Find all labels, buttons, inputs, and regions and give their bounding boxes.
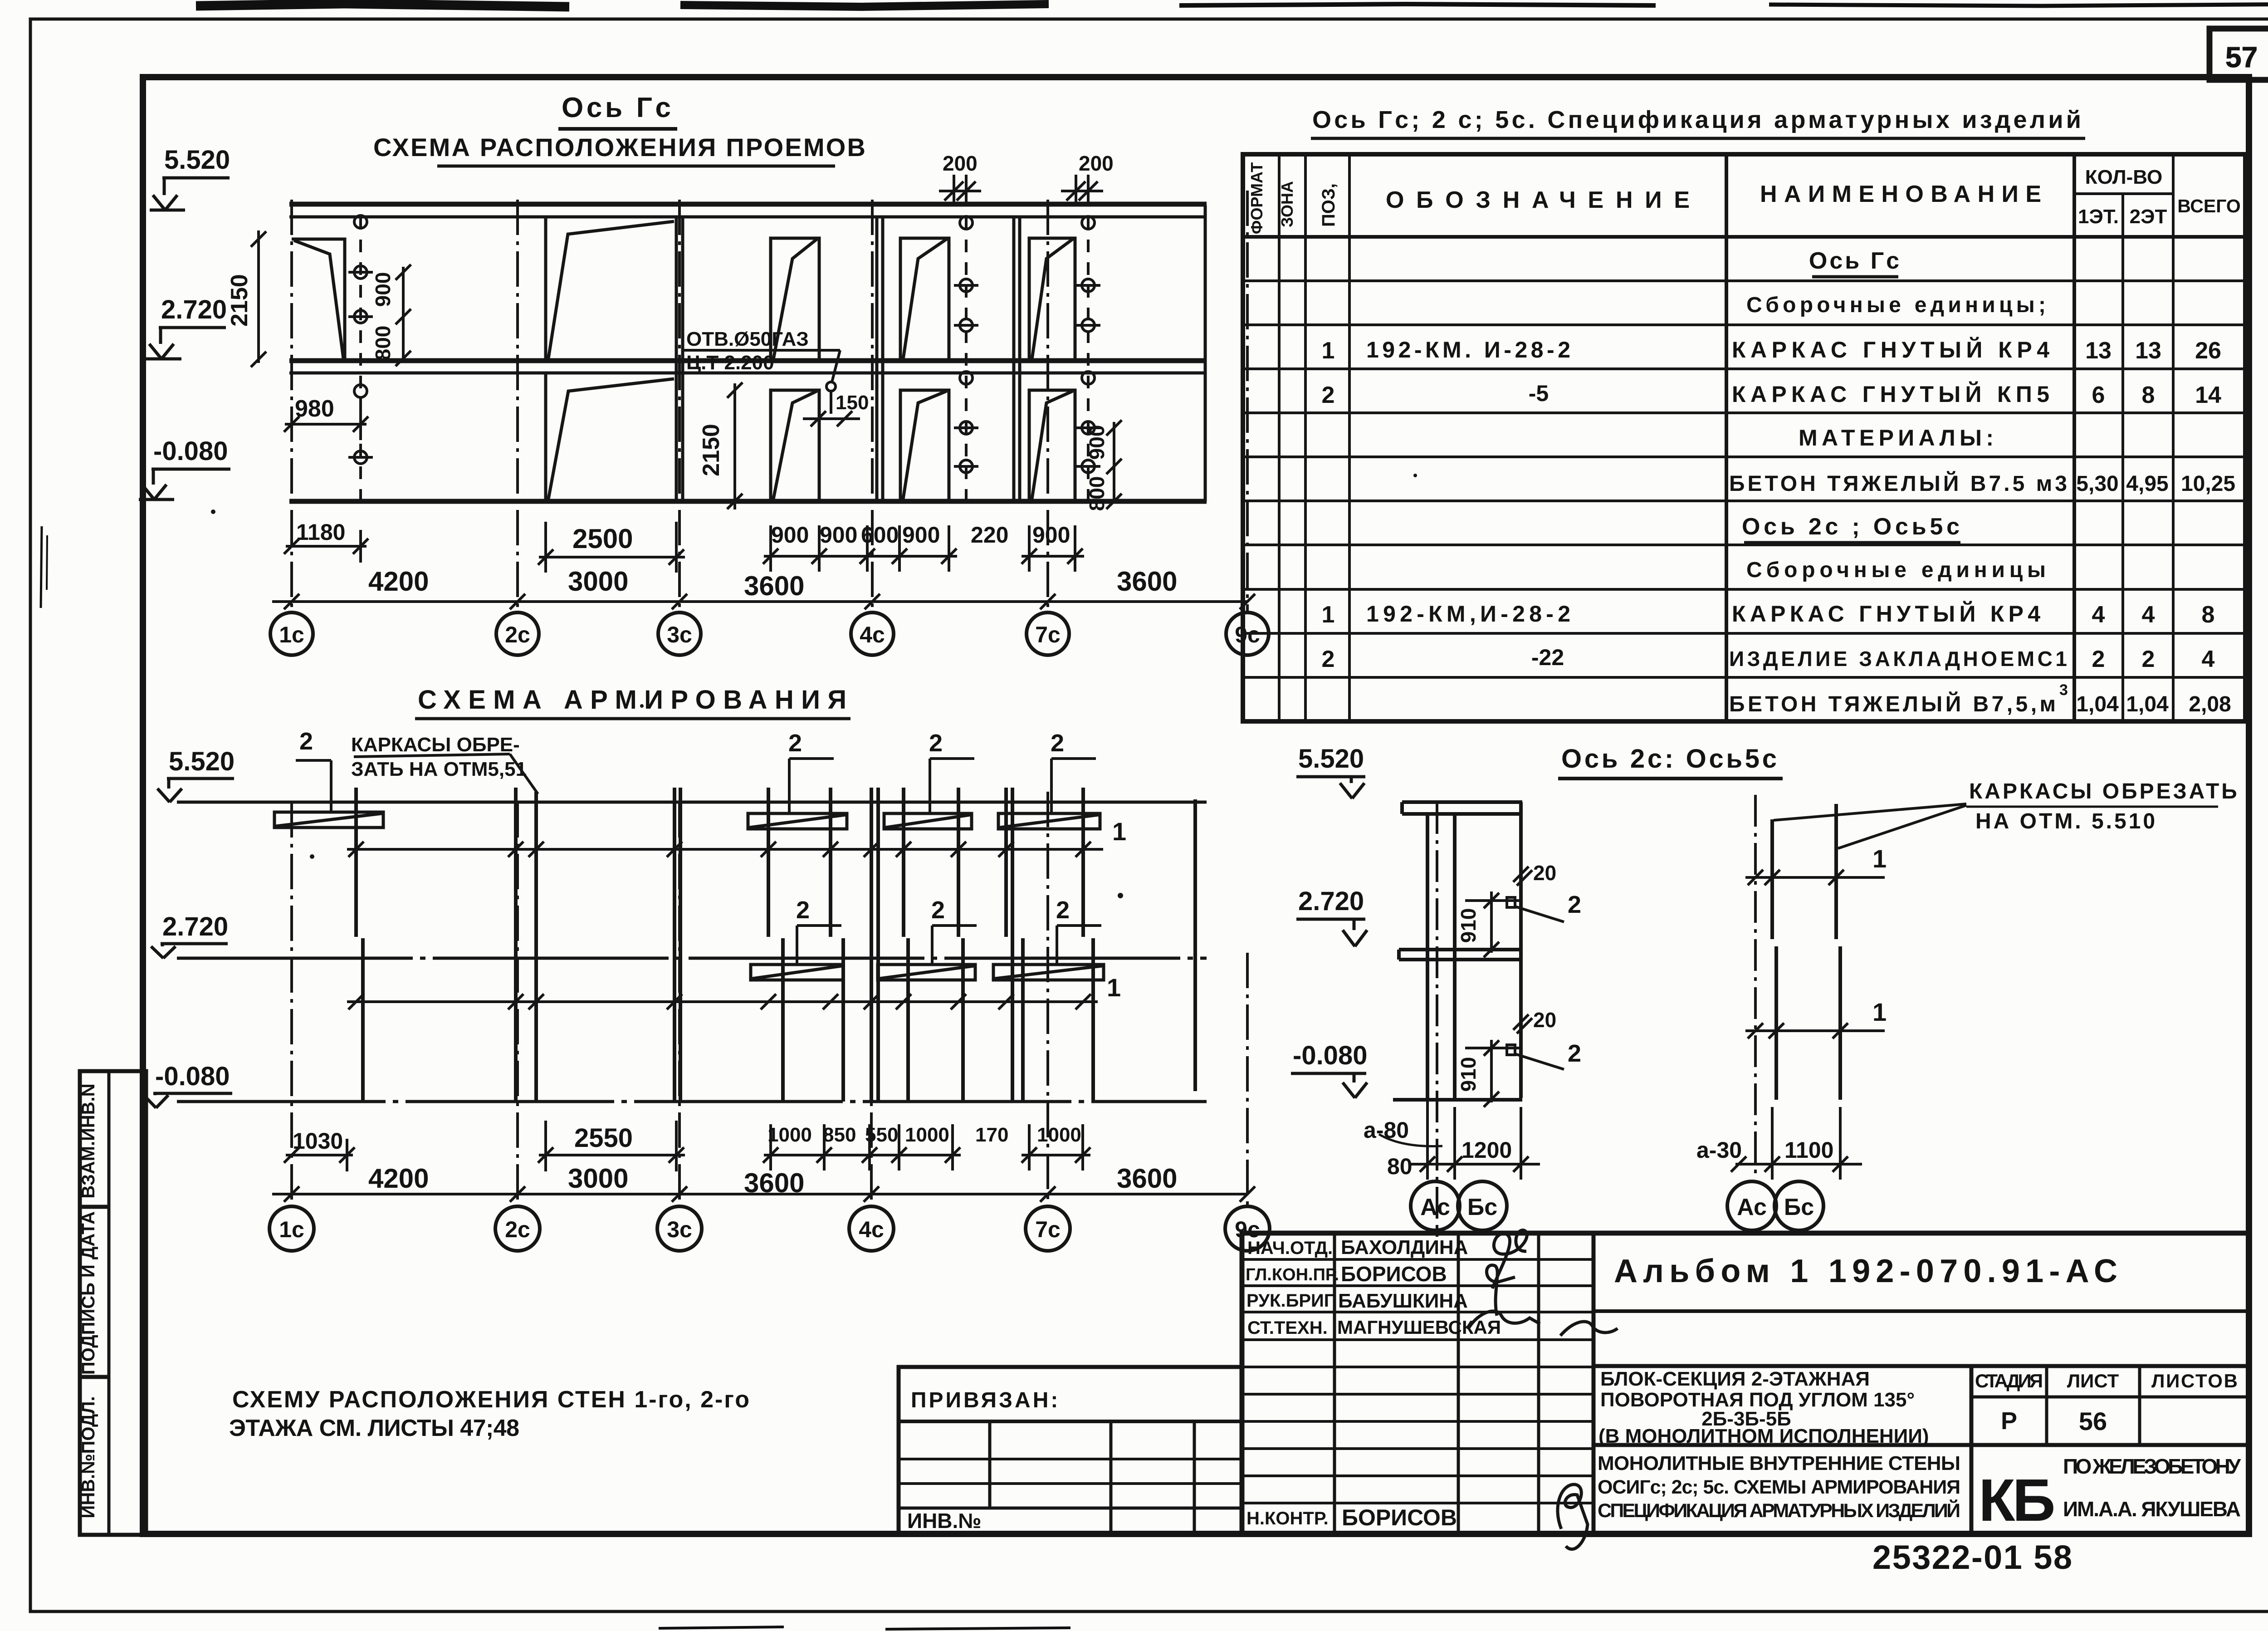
svg-text:ВЗАМ.ИНВ.N: ВЗАМ.ИНВ.N — [78, 1083, 98, 1198]
svg-text:200: 200 — [943, 152, 978, 175]
svg-text:Н.КОНТР.: Н.КОНТР. — [1246, 1509, 1329, 1528]
opening B5 diagonal — [1032, 391, 1073, 499]
dim 980 — [284, 408, 368, 440]
opening A5 diagonal — [1032, 239, 1073, 359]
svg-text:1180: 1180 — [296, 519, 345, 545]
svg-text:5.520: 5.520 — [1298, 744, 1364, 774]
svg-text:ГЛ.КОН.ПР.: ГЛ.КОН.ПР. — [1246, 1265, 1339, 1284]
spec table header bottom — [1243, 235, 2245, 239]
svg-text:СХЕМА РАСПОЛОЖЕНИЯ ПРОЕМОВ: СХЕМА РАСПОЛОЖЕНИЯ ПРОЕМОВ — [373, 133, 868, 162]
svg-text:7с: 7с — [1035, 622, 1061, 647]
svg-text:2,08: 2,08 — [2189, 692, 2231, 716]
page number box — [2209, 29, 2268, 80]
svg-text:-5: -5 — [1529, 381, 1549, 406]
small vertical dims 900/800 at V1 — [396, 264, 411, 366]
svg-text:БАБУШКИНА: БАБУШКИНА — [1338, 1290, 1468, 1312]
title block right part separators — [1593, 1309, 2249, 1313]
svg-text:Ось Гс: Ось Гс — [562, 92, 675, 123]
scan streak top 2 — [680, 4, 1049, 7]
svg-text:(В МОНОЛИТНОМ ИСПОЛНЕНИИ): (В МОНОЛИТНОМ ИСПОЛНЕНИИ) — [1598, 1425, 1929, 1447]
opening B4 — [900, 390, 949, 501]
rebar cage plate 4 band A — [998, 813, 1100, 829]
svg-text:Бс: Бс — [1467, 1194, 1497, 1220]
top slab — [1402, 800, 1522, 804]
dim 170 1000 — [1022, 1154, 1090, 1156]
sidebar stamp boxes — [80, 1071, 146, 1535]
axis 7c line — [1046, 200, 1049, 612]
section A axis — [1436, 802, 1438, 1237]
svg-text:Ц.Т 2.200: Ц.Т 2.200 — [686, 352, 774, 374]
svg-text:КАРКАСЫ ОБРЕ-: КАРКАСЫ ОБРЕ- — [351, 734, 520, 756]
signature scribbles — [1468, 1230, 1618, 1549]
left margin stamp marks — [41, 526, 42, 608]
axis bubbles lower drawing — [269, 1206, 1270, 1251]
rebar verticals band A — [356, 788, 1083, 937]
svg-text:1: 1 — [1322, 338, 1335, 364]
svg-text:4200: 4200 — [368, 566, 429, 597]
section B bottom dims — [1731, 1107, 1862, 1180]
svg-text:2: 2 — [929, 730, 943, 757]
dim row 1 lower drawing — [284, 1121, 1090, 1171]
rebar cage plate 2 band A — [748, 813, 847, 829]
svg-text:550: 550 — [865, 1124, 898, 1146]
svg-text:ЭТАЖА СМ. ЛИСТЫ 47;48: ЭТАЖА СМ. ЛИСТЫ 47;48 — [229, 1415, 519, 1441]
svg-text:2: 2 — [2142, 646, 2155, 672]
scan streak bottom 2 — [885, 1628, 1070, 1629]
rebar verticals band B — [363, 938, 1093, 1102]
svg-text:1000: 1000 — [1037, 1124, 1081, 1146]
svg-text:ПРИВЯЗАН:: ПРИВЯЗАН: — [911, 1388, 1060, 1412]
svg-text:2с: 2с — [505, 1217, 530, 1242]
svg-text:ПОЗ,: ПОЗ, — [1319, 183, 1339, 227]
opening A2 right double jamb (3c wall) — [675, 217, 678, 501]
svg-text:900: 900 — [820, 522, 857, 548]
axis bubble 1c — [270, 612, 313, 655]
svg-text:57: 57 — [2225, 41, 2258, 73]
svg-text:2: 2 — [1568, 1040, 1581, 1067]
svg-text:4,95: 4,95 — [2126, 472, 2168, 496]
rebar cage plate 4 band B — [993, 965, 1104, 980]
kol-vo sub line — [2074, 192, 2173, 195]
level mark 2.720 upper — [146, 295, 227, 359]
svg-text:4: 4 — [2202, 646, 2215, 672]
section A bottom dims — [1379, 1100, 1540, 1180]
svg-text:НАЧ.ОТД.: НАЧ.ОТД. — [1247, 1238, 1333, 1258]
svg-text:3с: 3с — [667, 1217, 692, 1242]
svg-text:2: 2 — [1322, 382, 1335, 408]
dim 910 upper section A — [1465, 891, 1520, 957]
ground line — [289, 499, 1207, 504]
axis bubble 7c — [1026, 612, 1069, 655]
ground chord line -0.08 — [177, 1100, 1207, 1103]
level mark 2.720 lower — [151, 912, 228, 958]
section B axis — [1754, 795, 1757, 1180]
svg-text:СХЕМУ РАСПОЛОЖЕНИЯ СТЕН 1-го,: СХЕМУ РАСПОЛОЖЕНИЯ СТЕН 1-го, 2-го — [232, 1386, 749, 1413]
svg-text:2.720: 2.720 — [1298, 887, 1364, 916]
scan streak top 3 — [1179, 4, 1656, 5]
svg-text:2: 2 — [299, 728, 313, 755]
stray ink specks — [211, 509, 215, 514]
section B rebars lower — [1776, 946, 1840, 1100]
svg-text:800: 800 — [1085, 476, 1109, 511]
svg-text:2.720: 2.720 — [161, 295, 227, 324]
svg-text:РУК.БРИГ.: РУК.БРИГ. — [1246, 1291, 1337, 1311]
svg-text:4: 4 — [2142, 602, 2155, 628]
dims 1000 850 550 1000 — [764, 1154, 961, 1156]
svg-text:КАРКАС ГНУТЫЙ КР4: КАРКАС ГНУТЫЙ КР4 — [1732, 601, 2040, 627]
svg-text:980: 980 — [295, 396, 334, 422]
axes of upper drawing — [292, 191, 1247, 612]
svg-text:a-30: a-30 — [1696, 1137, 1742, 1163]
dims 900 900 600 900 — [764, 555, 957, 558]
svg-text:2: 2 — [931, 896, 945, 924]
dim 1030 — [286, 1154, 353, 1156]
svg-text:СПЕЦИФИКАЦИЯ АРМАТУРНЫХ ИЗДЕЛИ: СПЕЦИФИКАЦИЯ АРМАТУРНЫХ ИЗДЕЛИЙ — [1598, 1499, 1960, 1522]
svg-text:900: 900 — [1085, 425, 1109, 460]
dim 2500 — [539, 556, 685, 558]
spec table column lines — [1278, 154, 1281, 721]
section B rebars upper — [1772, 804, 1836, 939]
dim row 1 upper drawing — [284, 522, 1084, 573]
svg-text:ЗОНА: ЗОНА — [1278, 181, 1296, 227]
svg-text:КАРКАС ГНУТЫЙ КР4: КАРКАС ГНУТЫЙ КР4 — [1732, 337, 2049, 362]
svg-text:1000: 1000 — [767, 1124, 812, 1146]
scan streak top 4 — [1769, 4, 2268, 6]
axis 3c line — [678, 200, 681, 612]
svg-text:-22: -22 — [1531, 645, 1564, 670]
rebar cage plate 3 band B — [878, 965, 975, 980]
band A cut line — [347, 848, 1103, 851]
svg-text:13: 13 — [2085, 338, 2112, 364]
svg-text:2: 2 — [1056, 896, 1070, 924]
axes of lower drawing — [292, 792, 1247, 1206]
svg-text:ИНВ.№: ИНВ.№ — [907, 1509, 982, 1533]
level mark 5.520 lower — [157, 747, 235, 802]
svg-text:ИМ.А.А. ЯКУШЕВА: ИМ.А.А. ЯКУШЕВА — [2063, 1497, 2241, 1521]
svg-text:7с: 7с — [1035, 1217, 1061, 1242]
svg-text:3000: 3000 — [568, 566, 628, 597]
svg-text:ЛИСТ: ЛИСТ — [2067, 1370, 2119, 1391]
band B cut line — [347, 1000, 1098, 1003]
svg-text:20: 20 — [1533, 861, 1556, 885]
svg-text:2с: 2с — [505, 622, 530, 647]
svg-text:25322-01 58: 25322-01 58 — [1872, 1538, 2072, 1576]
svg-text:2150: 2150 — [226, 274, 253, 327]
svg-text:5.520: 5.520 — [169, 747, 235, 776]
wall double line at 7c — [1012, 217, 1016, 501]
label 2 marks band A — [296, 759, 1096, 813]
svg-text:850: 850 — [823, 1124, 856, 1146]
svg-text:80: 80 — [1387, 1154, 1413, 1179]
opening A3 diagonal — [773, 239, 817, 359]
svg-text:1: 1 — [1872, 998, 1887, 1026]
title block vertical lines left part — [1333, 1233, 1336, 1534]
axis 9c line — [1246, 191, 1249, 612]
section B tick line upper with label 1 — [1745, 870, 1885, 885]
svg-text:13: 13 — [2135, 338, 2161, 364]
dim 910 lower section A — [1465, 1040, 1520, 1107]
ПРИВЯЗАН table — [899, 1367, 1242, 1534]
opening B3 — [771, 390, 819, 501]
vertical dim 2150 at opening A1 — [251, 230, 266, 367]
scan streak bottom 1 — [659, 1627, 784, 1628]
svg-text:ВСЕГО: ВСЕГО — [2177, 196, 2241, 216]
svg-text:Ас: Ас — [1420, 1194, 1450, 1220]
title block frame — [1242, 1233, 2249, 1534]
svg-text:14: 14 — [2195, 382, 2221, 408]
svg-text:2.720: 2.720 — [162, 912, 228, 941]
dim 2550 — [539, 1154, 685, 1156]
svg-text:900: 900 — [771, 522, 809, 548]
dim row 2 axis dims lower drawing — [272, 1186, 1255, 1202]
cut line slashes band A — [348, 842, 1091, 857]
dim row 2 axis dims upper drawing — [272, 594, 1255, 609]
svg-text:3: 3 — [2059, 681, 2068, 699]
svg-text:1с: 1с — [279, 1217, 304, 1242]
vent line V1 — [359, 217, 362, 501]
svg-text:6: 6 — [2092, 382, 2105, 408]
svg-text:26: 26 — [2195, 338, 2221, 364]
opening B2 left jamb — [544, 373, 547, 501]
svg-text:3600: 3600 — [1117, 566, 1177, 597]
svg-text:3с: 3с — [667, 622, 692, 647]
svg-text:Ас: Ас — [1737, 1194, 1767, 1220]
svg-text:1: 1 — [1872, 844, 1887, 873]
right edge line — [1519, 802, 1523, 1098]
svg-text:800: 800 — [371, 326, 395, 361]
svg-text:1: 1 — [1107, 973, 1121, 1002]
svg-text:4: 4 — [2092, 602, 2105, 628]
svg-text:5.520: 5.520 — [164, 145, 230, 175]
svg-text:200: 200 — [1079, 152, 1114, 175]
svg-text:1,04: 1,04 — [2076, 692, 2119, 716]
axis 1c line — [290, 200, 293, 612]
mid chord line 2.72 — [177, 957, 1207, 960]
svg-text:1,04: 1,04 — [2126, 692, 2169, 716]
svg-text:КОЛ-ВО: КОЛ-ВО — [2085, 166, 2162, 188]
embed plate 2 lower — [1507, 1045, 1515, 1055]
svg-text:КБ: КБ — [1979, 1467, 2054, 1533]
svg-text:20: 20 — [1533, 1008, 1556, 1032]
roof slab top line — [289, 202, 1207, 207]
svg-text:900: 900 — [902, 522, 940, 548]
svg-text:БОРИСОВ: БОРИСОВ — [1342, 1505, 1457, 1530]
vent line V2 — [965, 217, 968, 501]
svg-text:1с: 1с — [279, 622, 304, 647]
opening B4 diagonal — [903, 391, 947, 499]
opening A5 — [1029, 238, 1075, 361]
svg-text:910: 910 — [1457, 1057, 1480, 1092]
opening A2 left jamb — [544, 217, 547, 361]
svg-text:СТ.ТЕХН.: СТ.ТЕХН. — [1247, 1318, 1328, 1338]
svg-text:ОСИГс; 2с; 5с. СХЕМЫ АРМИРОВА: ОСИГс; 2с; 5с. СХЕМЫ АРМИРОВАНИЯ — [1598, 1476, 1960, 1498]
level mark 5.520 upper — [150, 145, 230, 210]
svg-text:ПОДПИСЬ И ДАТА: ПОДПИСЬ И ДАТА — [78, 1211, 98, 1375]
svg-text:3000: 3000 — [568, 1163, 628, 1194]
svg-text:ФОРМАТ: ФОРМАТ — [1247, 162, 1266, 234]
svg-text:8: 8 — [2202, 602, 2215, 628]
svg-text:-0.080: -0.080 — [155, 1062, 230, 1091]
svg-text:3600: 3600 — [744, 1168, 804, 1198]
dim 220 900 — [1022, 555, 1084, 558]
wall double line at 4c — [875, 217, 879, 501]
svg-text:2550: 2550 — [574, 1123, 633, 1153]
svg-text:ОТВ.Ø50ГАЗ: ОТВ.Ø50ГАЗ — [686, 328, 809, 350]
top chord line 5.52 — [177, 801, 1207, 804]
svg-text:170: 170 — [975, 1124, 1008, 1146]
svg-text:3600: 3600 — [744, 571, 804, 601]
axis 2c line — [516, 200, 519, 612]
section B tick line lower with label 1 — [1745, 1023, 1885, 1038]
section B bubbles — [1727, 1181, 1823, 1230]
embed mark 20 upper — [1513, 867, 1532, 886]
svg-text:910: 910 — [1457, 908, 1480, 943]
svg-text:150: 150 — [836, 392, 869, 414]
svg-text:Сборочные единицы;: Сборочные единицы; — [1746, 293, 2046, 317]
svg-text:2ЭТ: 2ЭТ — [2130, 206, 2167, 228]
rebar cage plate 2 band B — [751, 965, 843, 980]
svg-text:КАРКАС ГНУТЫЙ КП5: КАРКАС ГНУТЫЙ КП5 — [1732, 381, 2049, 407]
opening A3 — [771, 238, 819, 361]
rebar cage plate 3 band A — [884, 813, 972, 829]
svg-text:2: 2 — [788, 730, 802, 757]
opening B5 — [1029, 390, 1075, 501]
svg-text:4с: 4с — [859, 1217, 884, 1242]
level mark 2.720 section — [1296, 887, 1367, 946]
svg-text:ИНВ.№ПОДЛ.: ИНВ.№ПОДЛ. — [78, 1396, 98, 1518]
vent hole columns — [348, 216, 1100, 501]
vent line V3 — [1087, 217, 1090, 501]
svg-text:-0.080: -0.080 — [1293, 1041, 1367, 1070]
svg-text:900: 900 — [371, 272, 395, 307]
svg-text:900: 900 — [1032, 522, 1070, 548]
opening A4 — [900, 238, 949, 361]
wall double verticals 2c 3c 4c 7c tall — [516, 788, 1195, 1102]
svg-text:1: 1 — [1112, 817, 1126, 846]
embed plate 2 upper — [1507, 897, 1515, 907]
axis bubble 3c — [658, 612, 701, 655]
svg-text:БАХОЛДИНА: БАХОЛДИНА — [1341, 1236, 1468, 1259]
svg-text:1000: 1000 — [905, 1124, 949, 1146]
opening B3 diagonal — [773, 391, 817, 499]
svg-text:10,25: 10,25 — [2181, 472, 2235, 496]
bottom line — [1393, 1098, 1522, 1102]
section A bubbles — [1411, 1181, 1507, 1230]
spec table row lines — [1243, 279, 2245, 282]
svg-text:8: 8 — [2142, 382, 2155, 408]
svg-text:Р: Р — [2001, 1407, 2017, 1435]
svg-text:Ось 2с: Ось5с: Ось 2с: Ось5с — [1561, 744, 1779, 774]
svg-text:Сборочные единицы: Сборочные единицы — [1746, 558, 2046, 582]
vertical dim 2150 at opening B3 — [727, 382, 743, 509]
spec table frame — [1243, 154, 2245, 721]
svg-text:1ЭТ.: 1ЭТ. — [2078, 206, 2119, 228]
svg-text:2: 2 — [2092, 646, 2105, 672]
level mark -0.080 upper — [139, 436, 230, 500]
svg-text:ЗАТЬ НА ОТМ5,51: ЗАТЬ НА ОТМ5,51 — [351, 758, 527, 780]
svg-text:НА ОТМ. 5.510: НА ОТМ. 5.510 — [1975, 809, 2157, 833]
svg-text:СХЕМА АРМИРОВАНИЯ: СХЕМА АРМИРОВАНИЯ — [418, 685, 849, 715]
roof slab bottom line — [289, 216, 1207, 219]
title block row lines left part — [1242, 1258, 1593, 1261]
svg-text:220: 220 — [971, 522, 1008, 548]
opening A1 door diagonal — [294, 240, 343, 358]
svg-text:БОРИСОВ: БОРИСОВ — [1341, 1262, 1447, 1286]
wall faces — [1426, 814, 1429, 1100]
cut line slashes band B — [348, 994, 1091, 1009]
SECTION:TITLEBLOCK — [1242, 1233, 2249, 1534]
opening A2 diagonal — [548, 221, 674, 358]
axis bubble 9c — [1226, 612, 1269, 655]
axis bubble 2c — [496, 612, 539, 655]
floor slab bottom line — [289, 372, 1207, 375]
svg-text:-0.080: -0.080 — [153, 436, 228, 466]
mid slab — [1399, 948, 1522, 951]
opening A1 jambs and top — [292, 239, 345, 361]
svg-text:1: 1 — [1322, 602, 1335, 628]
floor slab top line — [289, 358, 1207, 363]
svg-text:3600: 3600 — [1117, 1163, 1177, 1194]
svg-text:БЛОК-СЕКЦИЯ 2-ЭТАЖНАЯ: БЛОК-СЕКЦИЯ 2-ЭТАЖНАЯ — [1600, 1368, 1870, 1390]
svg-text:Бс: Бс — [1784, 1194, 1814, 1220]
svg-text:2: 2 — [796, 896, 810, 924]
svg-text:КАРКАСЫ ОБРЕЗАТЬ: КАРКАСЫ ОБРЕЗАТЬ — [1969, 779, 2239, 803]
svg-text:1030: 1030 — [293, 1128, 343, 1154]
level mark -0.080 lower — [144, 1062, 232, 1108]
svg-text:Ось Гс: Ось Гс — [1809, 248, 1901, 274]
svg-text:4200: 4200 — [368, 1163, 429, 1194]
small vertical dims 900/800 at V3 — [1106, 420, 1122, 509]
svg-text:56: 56 — [2079, 1407, 2107, 1435]
axis bubble 4c — [851, 612, 894, 655]
section A wall — [1393, 802, 1522, 1100]
svg-text:4с: 4с — [860, 622, 885, 647]
svg-text:a-80: a-80 — [1364, 1117, 1409, 1143]
svg-text:2: 2 — [1322, 646, 1335, 672]
svg-text:Ось Гс; 2 с; 5с. Спецификаци: Ось Гс; 2 с; 5с. Спецификация арматурных… — [1312, 106, 2083, 133]
svg-text:600: 600 — [861, 522, 899, 548]
scan streak top 1 — [196, 4, 569, 7]
svg-text:ПО ЖЕЛЕЗОБЕТОНУ: ПО ЖЕЛЕЗОБЕТОНУ — [2063, 1455, 2241, 1478]
axis 4c line — [871, 200, 874, 612]
rebar cage plate L band A — [274, 812, 383, 828]
svg-text:2150: 2150 — [698, 424, 724, 476]
svg-text:5,30: 5,30 — [2076, 472, 2118, 496]
svg-text:2500: 2500 — [572, 524, 633, 554]
label 2 marks band B — [797, 926, 1101, 964]
dim 1180 — [286, 545, 367, 548]
svg-text:МОНОЛИТНЫЕ ВНУТРЕННИЕ СТЕНЫ: МОНОЛИТНЫЕ ВНУТРЕННИЕ СТЕНЫ — [1598, 1452, 1960, 1474]
svg-text:1200: 1200 — [1461, 1137, 1512, 1163]
svg-text:2: 2 — [1051, 730, 1064, 757]
right wall end cap — [1204, 205, 1207, 501]
svg-text:2: 2 — [1568, 891, 1581, 918]
SECTION:SIDEBAR — [80, 1071, 146, 1535]
level mark 5.520 section — [1296, 744, 1365, 798]
svg-text:СТАДИЯ: СТАДИЯ — [1975, 1370, 2043, 1391]
svg-text:1100: 1100 — [1784, 1137, 1833, 1163]
level mark -0.080 section — [1291, 1041, 1367, 1098]
opening A4 diagonal — [903, 239, 947, 359]
embed mark 20 lower — [1513, 1014, 1532, 1033]
opening B2 diagonal — [548, 379, 674, 499]
